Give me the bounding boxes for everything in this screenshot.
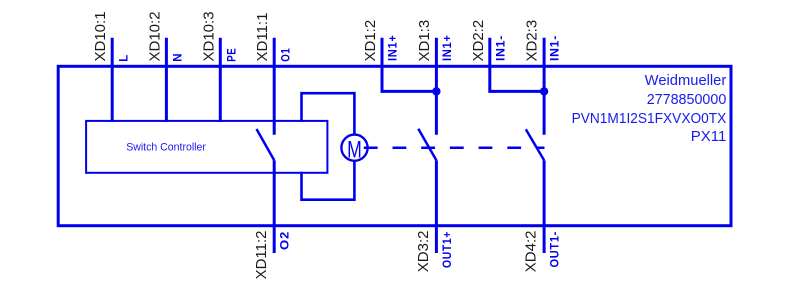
wire O2 output to terminal XD11:2: [273, 160, 276, 253]
wire motor loop: [302, 93, 355, 134]
motor M1 circle: [341, 135, 367, 161]
wire OUT1- to terminal XD4:2: [543, 160, 546, 253]
wire terminal XD1:3 (IN1+): [435, 38, 438, 135]
svg-text:O2: O2: [279, 231, 291, 250]
svg-text:IN1+: IN1+: [388, 35, 400, 62]
svg-text:IN1-: IN1-: [550, 35, 562, 61]
svg-text:IN1+: IN1+: [442, 35, 454, 62]
svg-text:PVN1M1I2S1FXVXO0TX: PVN1M1I2S1FXVXO0TX: [572, 111, 727, 127]
svg-text:XD11:1: XD11:1: [254, 13, 271, 62]
svg-text:Switch Controller: Switch Controller: [126, 142, 206, 154]
dashed mechanical link motor to switches: [364, 147, 545, 150]
wire terminal XD2:3 (IN1-): [543, 38, 546, 135]
device outline box: [58, 66, 731, 225]
svg-text:XD11:2: XD11:2: [253, 231, 270, 280]
wire OUT1+ to terminal XD3:2: [435, 160, 438, 253]
svg-text:Weidmueller: Weidmueller: [645, 73, 727, 89]
svg-text:N: N: [173, 53, 185, 62]
switch S2 blade (IN1-/OUT1-): [526, 129, 544, 160]
wire terminal XD1:2 (IN1+): [382, 38, 436, 92]
svg-text:XD10:2: XD10:2: [146, 11, 163, 61]
wire terminal XD10:3 (PE): [219, 38, 222, 122]
junction node IN1+: [432, 87, 440, 95]
switch S0 blade (output contact O1-O2): [257, 129, 275, 160]
wire terminal XD11:1 (O1): [273, 38, 276, 135]
svg-text:XD10:1: XD10:1: [92, 11, 109, 61]
svg-text:XD10:3: XD10:3: [200, 11, 217, 61]
svg-text:L: L: [118, 54, 130, 62]
svg-text:OUT1-: OUT1-: [550, 231, 562, 268]
svg-text:XD2:3: XD2:3: [524, 20, 541, 62]
svg-text:2778850000: 2778850000: [647, 92, 727, 108]
wire terminal XD10:2 (N): [165, 38, 168, 122]
svg-text:XD4:2: XD4:2: [523, 231, 540, 273]
svg-text:O1: O1: [280, 48, 292, 62]
switch S1 blade (IN1+/OUT1+): [418, 129, 436, 161]
svg-text:XD2:2: XD2:2: [470, 20, 487, 62]
svg-text:PE: PE: [226, 48, 238, 62]
svg-text:XD1:3: XD1:3: [416, 20, 433, 62]
svg-text:M: M: [347, 136, 362, 164]
svg-text:IN1-: IN1-: [495, 35, 507, 61]
svg-text:XD3:2: XD3:2: [415, 231, 432, 273]
junction node IN1-: [540, 87, 548, 95]
wire terminal XD2:2 (IN1-): [490, 38, 544, 92]
wire motor loop lower: [302, 161, 355, 200]
wire terminal XD10:1 (L): [111, 38, 114, 122]
svg-text:XD1:2: XD1:2: [362, 20, 379, 62]
switch controller block U1: [86, 121, 327, 173]
svg-text:PX11: PX11: [691, 129, 727, 145]
svg-text:OUT1+: OUT1+: [442, 231, 454, 268]
